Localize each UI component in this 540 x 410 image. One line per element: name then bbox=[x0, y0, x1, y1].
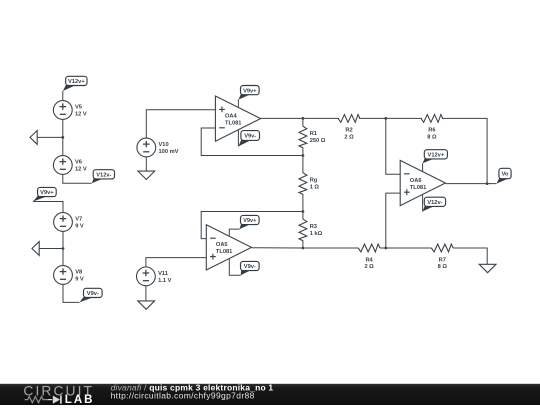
svg-text:R6: R6 bbox=[428, 128, 435, 134]
svg-text:OA4: OA4 bbox=[225, 113, 238, 119]
svg-text:V7: V7 bbox=[75, 216, 82, 222]
svg-text:V10: V10 bbox=[159, 142, 169, 148]
svg-text:V9v-: V9v- bbox=[244, 134, 256, 140]
svg-text:V9v+: V9v+ bbox=[40, 190, 54, 196]
svg-text:R1: R1 bbox=[310, 131, 317, 137]
svg-text:R2: R2 bbox=[345, 128, 352, 134]
svg-text:LAB: LAB bbox=[65, 394, 95, 405]
svg-text:1.1 V: 1.1 V bbox=[158, 278, 171, 284]
svg-text:V12v-: V12v- bbox=[96, 173, 111, 179]
svg-text:1 Ω: 1 Ω bbox=[310, 185, 320, 191]
svg-text:OA5: OA5 bbox=[216, 242, 228, 248]
svg-text:V12v+: V12v+ bbox=[68, 79, 85, 85]
svg-text:TL081: TL081 bbox=[225, 120, 241, 126]
svg-text:OA6: OA6 bbox=[410, 178, 422, 184]
svg-text:TL081: TL081 bbox=[410, 185, 426, 191]
svg-text:R7: R7 bbox=[439, 257, 446, 263]
svg-text:V9v-: V9v- bbox=[87, 291, 99, 297]
svg-text:Vo: Vo bbox=[502, 172, 509, 178]
svg-text:V9v-: V9v- bbox=[244, 264, 256, 270]
svg-text:V9v+: V9v+ bbox=[243, 218, 257, 224]
svg-text:V6: V6 bbox=[75, 159, 82, 165]
svg-text:100 mV: 100 mV bbox=[159, 149, 179, 155]
svg-text:R4: R4 bbox=[365, 257, 373, 263]
svg-text:V12v-: V12v- bbox=[427, 200, 442, 206]
svg-text:V12v+: V12v+ bbox=[428, 153, 445, 159]
svg-text:Rg: Rg bbox=[310, 178, 318, 184]
svg-text:V9v+: V9v+ bbox=[243, 88, 257, 94]
svg-text:12 V: 12 V bbox=[75, 166, 87, 172]
svg-text:12 V: 12 V bbox=[75, 111, 87, 117]
svg-text:9 V: 9 V bbox=[75, 276, 84, 282]
svg-text:8 Ω: 8 Ω bbox=[427, 135, 437, 141]
svg-text:1 kΩ: 1 kΩ bbox=[310, 231, 323, 237]
svg-text:V5: V5 bbox=[75, 104, 82, 110]
svg-text:2 Ω: 2 Ω bbox=[364, 264, 374, 270]
svg-text:V11: V11 bbox=[158, 271, 168, 277]
svg-text:250 Ω: 250 Ω bbox=[310, 138, 326, 144]
svg-text:9 V: 9 V bbox=[75, 223, 84, 229]
svg-text:http://circuitlab.com/chfy99gp: http://circuitlab.com/chfy99gp7dr88 bbox=[111, 390, 255, 400]
svg-text:TL081: TL081 bbox=[216, 249, 232, 255]
svg-text:2 Ω: 2 Ω bbox=[344, 135, 354, 141]
svg-text:V8: V8 bbox=[75, 269, 82, 275]
svg-text:R3: R3 bbox=[310, 224, 317, 230]
svg-text:8 Ω: 8 Ω bbox=[438, 264, 448, 270]
